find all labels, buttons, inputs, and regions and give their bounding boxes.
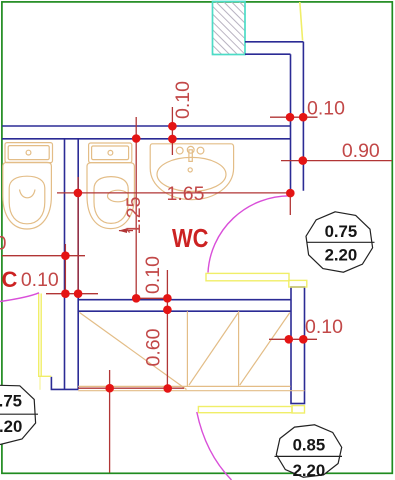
svg-text:0.10: 0.10 <box>142 256 164 294</box>
door symbol left 0.75/2.20 <box>0 385 38 444</box>
svg-text:0.60: 0.60 <box>143 328 165 366</box>
svg-text:0.10: 0.10 <box>21 269 59 291</box>
column K1 hatched <box>213 2 246 55</box>
wall wc top inner <box>2 138 291 140</box>
dim extension x109 <box>109 370 111 473</box>
svg-text:0: 0 <box>0 233 7 255</box>
dim dots <box>61 113 308 393</box>
dim 1.65 line <box>57 192 290 194</box>
toilet WC1 <box>3 143 53 229</box>
door symbol bottom 0.85/2.20 <box>275 425 343 477</box>
svg-text:0.85: 0.85 <box>293 436 326 455</box>
dim line y255 <box>2 255 85 257</box>
sink <box>150 144 233 200</box>
door leaf yellow stair <box>198 407 292 413</box>
svg-text:1.25: 1.25 <box>123 196 145 234</box>
door symbol right 0.75/2.20 <box>306 212 375 272</box>
svg-text:0.90: 0.90 <box>342 140 380 162</box>
dim 0.60 bottom line <box>78 387 184 389</box>
svg-text:0.10: 0.10 <box>172 81 194 119</box>
svg-text:0.75: 0.75 <box>0 392 22 411</box>
wall partition foot <box>51 377 78 390</box>
svg-text:C: C <box>2 267 18 292</box>
dim 0.90 line <box>281 160 392 162</box>
svg-text:0.10: 0.10 <box>305 316 343 338</box>
wall top-right horizontal outer <box>2 42 305 404</box>
wall right lower <box>291 287 305 404</box>
dim 1.25 line <box>135 117 137 298</box>
toilet WC2 <box>87 143 134 229</box>
door swing left room <box>0 293 39 302</box>
dim 0.10 top right line <box>270 116 318 118</box>
svg-text:2.20: 2.20 <box>325 246 358 265</box>
wire yellow left of stairs <box>39 294 48 377</box>
wall stair top inner <box>78 310 291 312</box>
door swing WC <box>208 196 290 273</box>
svg-text:WC: WC <box>172 223 209 253</box>
door leaf yellow WC <box>39 273 307 413</box>
dim 0.10 partition lines <box>46 293 98 295</box>
wall right vertical outer <box>302 42 304 191</box>
wall right vertical inner <box>290 54 292 191</box>
door swing stair <box>197 412 232 480</box>
svg-text:0.10: 0.10 <box>307 98 345 120</box>
svg-text:0.75: 0.75 <box>325 222 358 241</box>
stairs <box>78 311 304 391</box>
svg-text:2.20: 2.20 <box>0 417 22 436</box>
wall stair top outer <box>78 299 291 301</box>
dim 0.10 stair right line <box>269 338 317 340</box>
svg-text:2.20: 2.20 <box>293 461 326 480</box>
wall partition left <box>64 139 66 390</box>
wire yellow top <box>300 2 303 41</box>
wall top-right horizontal inner <box>245 53 291 55</box>
wall wc top outer <box>2 125 291 127</box>
dim 0.10 top wall <box>2 107 392 473</box>
dim arrow 1.25 <box>119 230 133 232</box>
dim wall 0.10/0.60 vertical <box>166 270 168 388</box>
wall partition right <box>77 139 79 390</box>
svg-text:1.65: 1.65 <box>167 183 205 205</box>
